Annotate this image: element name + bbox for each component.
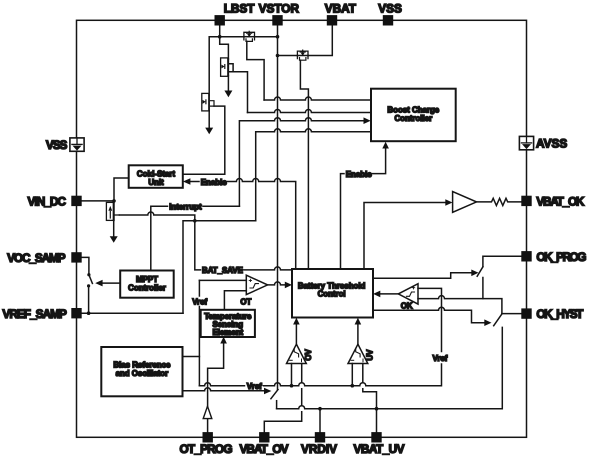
switch blade (VOC sample switch): [89, 275, 92, 283]
svg-text:VOC_SAMP: VOC_SAMP: [7, 251, 66, 265]
svg-text:VBAT: VBAT: [325, 2, 357, 16]
svg-text:VSS: VSS: [46, 138, 68, 152]
pin VSS left (ground-in-square): [70, 138, 84, 151]
wire: OK output arrow into Battery box right edge: [380, 293, 398, 295]
pin square OT_PROG: [203, 432, 213, 442]
wire: OV + input to rail: [291, 364, 293, 386]
pin square VIN_DC: [71, 196, 81, 206]
svg-text:Vref: Vref: [192, 297, 207, 306]
transistor M3 (VIN_DC): [106, 201, 119, 221]
pin square VBAT: [327, 15, 337, 25]
pin square OK_PROG: [521, 251, 531, 261]
wire: M_rect right to VSTOR vertical: [255, 36, 278, 38]
wire: junction right to bus4 riser: [195, 220, 256, 222]
wire: switch contact stub down to low rail: [276, 401, 278, 409]
wire: bus2 into Boost box (hops at 277.5 and 308.4): [248, 110, 372, 113]
wire: VIN_DC riser to Cold-Start left edge: [114, 178, 129, 201]
wire: OT - input from Temp box top: [224, 291, 246, 310]
svg-text:OK: OK: [401, 301, 413, 310]
wire: UV output arrow into Battery box bottom: [357, 322, 359, 344]
wire: OK_PROG pin wire and corner down: [483, 256, 521, 266]
pin AVSS right (ground-in-square): [519, 136, 533, 149]
comparator OK (points left): [398, 284, 418, 304]
pin square LBST: [215, 15, 225, 25]
svg-text:BAT_SAVE: BAT_SAVE: [202, 266, 243, 275]
resistor to VBAT_OK pin: [477, 198, 522, 205]
arrowhead into Boost box (bus3): [364, 117, 371, 124]
node switch contact dot: [87, 284, 90, 287]
node M_rect/VSTOR junction: [276, 35, 280, 39]
wire: LBST jog down to M2 drain: [220, 37, 229, 59]
transistor M1 (cold-start NMOS): [202, 93, 214, 111]
wire: Bias to VBAT_OV switch arrow line (hop at 207.6): [183, 388, 265, 391]
node VSTOR/PMOS junction: [276, 54, 280, 58]
wire: M2 gate lead to bus2: [233, 72, 247, 113]
node VREF_SAMP/switch junction: [87, 311, 91, 315]
svg-text:Controller: Controller: [128, 283, 166, 292]
block MPPT Controller: [120, 271, 174, 298]
wire: y215 line from M3 to junction (hop at 150.8): [119, 212, 194, 221]
pin square VBAT_OK: [521, 196, 531, 206]
wire: VOC_SAMP pin to switch: [82, 257, 89, 274]
comparator UV: [348, 344, 368, 363]
svg-text:OK_PROG: OK_PROG: [536, 250, 586, 264]
arrow from MPPT to switch: [102, 282, 121, 284]
wire: BAT_SAVE continues to Battery box (hop at 277.5): [242, 267, 292, 270]
outer border: [77, 20, 527, 437]
switch blade near VBAT_OV (pivot on VSTOR line): [271, 390, 278, 399]
wire: VIN_DC pin line: [82, 200, 114, 202]
svg-text:VBAT_OV: VBAT_OV: [240, 442, 289, 456]
wire: Vref riser continues to rail corner: [198, 307, 200, 386]
wire: OT_PROG riser with open triangle, to Temp element arrow: [207, 419, 209, 438]
wire: Enable (cold-start) arrow and line (hops at 239.4, 255.7, 277.5): [190, 181, 199, 183]
wire: UV - input jog down to VBAT_UV: [363, 364, 377, 438]
svg-text:OV: OV: [304, 348, 313, 360]
wire: OK lower input line to OK_HYST pivot (hop at 441.5): [418, 296, 502, 314]
block Bias Reference and Oscillator: [101, 347, 182, 396]
pin square VSTOR: [272, 15, 282, 25]
label Vref (on OT+ riser): [198, 280, 200, 296]
svg-text:OT_PROG: OT_PROG: [180, 442, 233, 456]
pin square VBAT_UV: [371, 432, 381, 442]
wire: OV - input down, hops rails, to VBAT_OV (corner at 421.2): [264, 364, 301, 438]
wire: OT output arrow into Battery box (hop at 277.5): [268, 282, 285, 285]
svg-text:VBAT_OK: VBAT_OK: [536, 195, 584, 209]
wire: Battery box to OK_PROG switch arrow: [373, 273, 472, 279]
wire: OV output arrow into Battery box bottom: [295, 322, 297, 344]
svg-text:OT: OT: [240, 297, 251, 306]
svg-text:Unit: Unit: [148, 178, 164, 187]
wire: VSTOR vertical (pin down to VBAT_OV switch pivot): [277, 20, 279, 389]
comparator OV: [287, 344, 307, 363]
wire: contact down to VREF_SAMP line: [88, 286, 90, 313]
node LBST junction: [218, 35, 222, 39]
svg-text:Vref: Vref: [247, 382, 262, 391]
wire: VRDIV riser: [319, 409, 321, 438]
svg-text:Enable: Enable: [201, 178, 227, 187]
node junction 195,220.8: [193, 219, 197, 223]
wire: OK riser top to OK + input: [418, 288, 442, 351]
wire: VSTOR junction to M_pmos2 left: [278, 55, 298, 57]
wire: bus1 into Boost box (hops at 277.5 and 308.4): [264, 97, 371, 100]
svg-text:Element: Element: [212, 328, 243, 337]
svg-text:Interrupt: Interrupt: [169, 202, 202, 211]
open triangle on OT_PROG line: [203, 406, 212, 418]
svg-text:LBST: LBST: [224, 2, 256, 16]
svg-text:and Oscillator: and Oscillator: [116, 369, 169, 378]
svg-text:Vref: Vref: [433, 354, 448, 363]
svg-text:UV: UV: [365, 349, 374, 361]
svg-text:VREF_SAMP: VREF_SAMP: [2, 307, 67, 321]
svg-text:Controller: Controller: [394, 114, 432, 123]
pin square VSS top: [383, 15, 393, 25]
pin square VBAT_OV: [259, 432, 269, 442]
wire: OT + input from Vref riser: [199, 279, 246, 281]
wire: low rail y=408.7 (hop at 301.7, dots at 320, 376.5, corner up at 502.3): [277, 327, 503, 408]
ground arrow under M2: [227, 76, 229, 92]
ground arrow under M3: [113, 220, 115, 236]
wire: boost Enable riser from Battery box top, text, to Boost bottom arrow: [341, 174, 345, 269]
pin square VREF_SAMP: [71, 308, 81, 318]
svg-text:Enable: Enable: [346, 170, 372, 179]
svg-text:VBAT_UV: VBAT_UV: [354, 442, 405, 456]
wire: LBST vertical from pin to junction: [219, 20, 221, 36]
wire: OK_PROG riser T onto that line: [482, 278, 484, 299]
wire: VBAT_OK riser from Battery box top and line to buffer (arrow before buffer): [364, 203, 446, 270]
wire: Interrupt line (MPPT riser, text gap, riser to bus3): [151, 206, 168, 270]
wire: VREF_SAMP line (pin to jog up at 183): [82, 312, 183, 314]
wire: junction down to BAT_SAVE line: [195, 221, 201, 270]
wire: OK_HYST pin wire: [502, 313, 521, 315]
wire: Battery box line B to OK_HYST switch arrow (hop at 441.5): [373, 307, 485, 322]
pin square OK_HYST: [521, 308, 531, 318]
switch blade OK_PROG: [477, 267, 483, 276]
wire: Vref rail (hops 207.6, text gap, hops 277.5, 301.7, 362.8; dots 291.5, 352.3; corner up at 441.5): [199, 383, 244, 386]
buffer triangle VBAT_OK: [453, 192, 477, 213]
ground arrow under M1: [208, 111, 210, 128]
block Cold-Start Unit: [129, 165, 183, 188]
switch blade OK_HYST: [494, 314, 502, 326]
block Temperature Sensing Element: [201, 310, 255, 337]
block Boost Charge Controller: [371, 89, 456, 142]
wire: M_rect gate to bus1 riser: [247, 41, 264, 100]
arrowhead into Temp box bottom: [220, 337, 227, 344]
wire: M_pmos2 right to VBAT pin: [308, 20, 332, 55]
node switch pivot dot: [87, 273, 90, 276]
svg-text:VSS: VSS: [378, 2, 402, 16]
wire: LBST junction left branch down to M1 drain: [209, 37, 220, 95]
wire: LBST junction right to M_rect left: [220, 36, 244, 38]
wire: junction left jog down to VREF_SAMP line: [183, 221, 195, 313]
transistor M2 (boost NMOS under LBST): [221, 58, 234, 76]
pin square VOC_SAMP: [71, 252, 81, 262]
wire: UV + input to rail: [351, 364, 353, 386]
wire: bus3 Interrupt riser and line into Boost with arrow (hops 277.5, 308.4): [239, 118, 364, 207]
wire: bus4 riser and line into Boost (hops 277.5, 308.4): [256, 129, 371, 221]
transistor M_pmos2 (VSTOR-VBAT switch): [297, 50, 308, 60]
wire: M_pmos2 gate to Battery Threshold Control (long vertical, hops bus lines): [300, 60, 308, 269]
wire: Bias output joins Vref riser: [183, 356, 200, 358]
block Battery Threshold Control: [292, 269, 373, 318]
pin square VRDIV: [315, 432, 325, 442]
svg-text:VIN_DC: VIN_DC: [28, 195, 67, 209]
svg-text:VSTOR: VSTOR: [259, 2, 300, 16]
node VIN_DC junction: [112, 199, 116, 203]
wire: M1 gate lead to Cold-Start right edge: [183, 106, 225, 174]
svg-text:VRDIV: VRDIV: [301, 442, 337, 456]
svg-text:OK_HYST: OK_HYST: [536, 307, 584, 321]
svg-text:AVSS: AVSS: [536, 137, 567, 151]
transistor M_rect (PMOS LBST-VSTOR): [244, 31, 255, 41]
svg-text:Control: Control: [318, 290, 346, 299]
comparator OT: [246, 275, 267, 294]
